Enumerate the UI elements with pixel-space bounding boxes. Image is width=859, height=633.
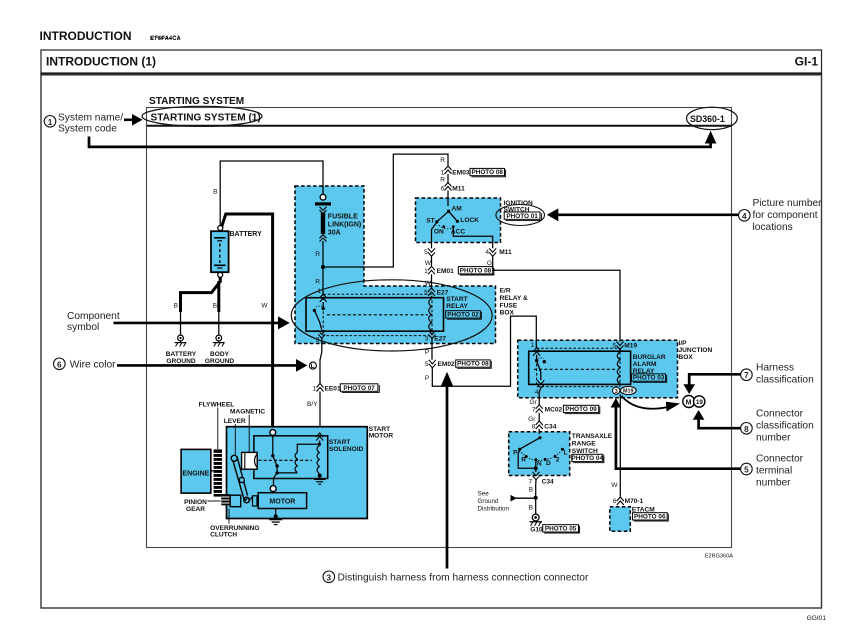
svg-text:BURGLAR: BURGLAR <box>633 354 666 361</box>
solenoid pull-in coil <box>317 441 321 474</box>
svg-text:PHOTO 02: PHOTO 02 <box>447 312 479 319</box>
svg-text:E/R: E/R <box>500 288 511 295</box>
photo box PHOTO 08 (EM02) <box>456 360 492 368</box>
svg-text:Ground: Ground <box>478 498 500 505</box>
label IGNITION SWITCH <box>504 200 534 214</box>
connector B/Y entry chevron <box>316 433 323 441</box>
connector C34 pin 8 <box>528 413 557 434</box>
svg-text:GGI01: GGI01 <box>807 615 827 622</box>
svg-text:LEVER: LEVER <box>224 418 246 425</box>
svg-text:EM03: EM03 <box>452 169 470 176</box>
solenoid ground <box>314 474 325 485</box>
motor MOTOR <box>258 493 306 509</box>
callout component symbol <box>67 311 290 333</box>
svg-text:number: number <box>756 477 791 488</box>
label FLYWHEEL with leader <box>199 402 235 450</box>
connector MC02 pin 7 / wire Gr <box>529 388 562 413</box>
svg-text:GROUND: GROUND <box>166 358 196 365</box>
start relay switch contacts <box>313 306 325 330</box>
callout 3 distinguish harness <box>323 372 589 584</box>
label TRANSAXLE RANGE SWITCH <box>572 433 613 455</box>
svg-text:M: M <box>686 399 692 406</box>
svg-text:5: 5 <box>744 466 749 475</box>
connector E27 pin 3 (relay coil bottom) <box>425 331 447 343</box>
svg-text:PHOTO 08: PHOTO 08 <box>460 267 492 274</box>
svg-text:symbol: symbol <box>67 322 99 333</box>
svg-text:PHOTO 04: PHOTO 04 <box>572 455 604 462</box>
svg-text:3: 3 <box>615 389 618 395</box>
callout 7 harness classification <box>683 363 813 394</box>
svg-text:7: 7 <box>532 406 536 413</box>
svg-text:PHOTO 08: PHOTO 08 <box>457 361 489 368</box>
svg-text:8: 8 <box>532 423 536 430</box>
svg-text:STARTING SYSTEM (1): STARTING SYSTEM (1) <box>151 113 261 124</box>
lever arm <box>231 455 249 503</box>
burglar alarm relay box (I/P junction box) <box>518 340 678 398</box>
svg-text:P: P <box>425 349 430 356</box>
svg-text:1: 1 <box>48 118 53 127</box>
svg-text:I/P: I/P <box>679 340 688 347</box>
label E/R RELAY & FUSE BOX <box>500 288 528 317</box>
svg-text:EF6FA4C3: EF6FA4C3 <box>151 36 180 42</box>
svg-text:GROUND: GROUND <box>205 358 235 365</box>
svg-text:1: 1 <box>531 342 535 349</box>
ignition switch box <box>416 198 501 243</box>
photo box PHOTO 07 <box>340 384 379 393</box>
svg-text:PHOTO 05: PHOTO 05 <box>545 526 577 533</box>
svg-text:FUSIBLE: FUSIBLE <box>328 214 358 221</box>
transaxle range switch contacts <box>513 436 567 472</box>
svg-text:E27: E27 <box>434 335 446 342</box>
motor terminal <box>270 486 276 492</box>
burglar alarm relay coil <box>617 350 620 386</box>
svg-text:locations: locations <box>753 222 793 233</box>
start relay body <box>306 294 444 335</box>
svg-text:CLUTCH: CLUTCH <box>210 532 237 539</box>
svg-text:3: 3 <box>327 573 332 582</box>
label OVERRUNNING CLUTCH with leader <box>210 509 259 539</box>
svg-text:M70-1: M70-1 <box>625 498 644 505</box>
curved arrow to M19 circles <box>622 396 681 412</box>
burglar alarm relay body <box>529 348 631 386</box>
svg-text:W: W <box>611 482 618 489</box>
svg-text:EE01: EE01 <box>325 385 341 392</box>
inner diagram frame <box>147 108 732 548</box>
photo box PHOTO 06 <box>633 513 669 521</box>
svg-text:EM02: EM02 <box>438 361 456 368</box>
label I/P JUNCTION BOX <box>679 340 713 361</box>
svg-text:INTRODUCTION: INTRODUCTION <box>40 29 132 43</box>
connector EM03 pin 1 <box>440 157 470 176</box>
burglar alarm relay switch contacts <box>535 356 546 380</box>
svg-text:SOLENOID: SOLENOID <box>329 446 364 453</box>
svg-text:MC02: MC02 <box>545 406 563 413</box>
svg-text:Component: Component <box>67 311 120 322</box>
svg-text:6: 6 <box>613 498 617 505</box>
start relay coil (E27 5-3) <box>429 296 432 332</box>
svg-text:7: 7 <box>529 478 533 485</box>
node R junction <box>321 265 325 269</box>
connector E27 pin 1 (relay switch top) <box>317 267 326 307</box>
magnetic plunger box <box>242 452 258 469</box>
svg-text:LINK(IGN): LINK(IGN) <box>328 222 361 229</box>
svg-text:JUNCTION: JUNCTION <box>679 347 713 354</box>
svg-text:Picture number: Picture number <box>753 198 823 209</box>
connector C34 pin 7 <box>529 472 555 486</box>
svg-text:RELAY &: RELAY & <box>500 295 528 302</box>
svg-text:TRANSAXLE: TRANSAXLE <box>572 433 613 440</box>
svg-text:6: 6 <box>57 360 62 369</box>
svg-text:SWITCH: SWITCH <box>572 448 598 455</box>
svg-text:System code: System code <box>58 123 117 134</box>
connector M11 pin 6 <box>440 174 465 192</box>
svg-text:30A: 30A <box>328 230 341 237</box>
svg-text:GEAR: GEAR <box>186 506 205 513</box>
svg-text:PHOTO 06: PHOTO 06 <box>634 514 666 521</box>
photo box PHOTO 05 <box>543 525 580 533</box>
connector EE01 pin 1 / wire B/Y <box>307 338 341 433</box>
svg-text:W: W <box>425 260 432 267</box>
svg-text:terminal: terminal <box>756 465 792 476</box>
ETACM box <box>610 507 631 532</box>
svg-text:INTRODUCTION (1): INTRODUCTION (1) <box>46 55 156 69</box>
ellipse around title <box>142 106 262 126</box>
node circled 3 (connector terminal number) <box>613 387 620 395</box>
svg-text:RELAY: RELAY <box>446 303 468 310</box>
svg-text:P: P <box>425 375 430 382</box>
connector M70-1 pin 6 <box>613 497 644 505</box>
svg-text:19: 19 <box>696 399 704 406</box>
svg-text:G: G <box>487 260 492 267</box>
wire G from ignition to burglar relay coil <box>493 256 620 341</box>
photo box PHOTO 09 <box>563 405 599 413</box>
svg-text:AM: AM <box>452 206 463 213</box>
wire B thick battery negative fork <box>174 277 221 334</box>
svg-text:R: R <box>521 457 526 464</box>
motor ground <box>269 509 282 525</box>
svg-text:R: R <box>440 177 445 184</box>
connector M19 pin 4 (burglar relay switch bottom) <box>535 380 544 396</box>
svg-text:Harness: Harness <box>756 363 794 374</box>
svg-text:7: 7 <box>744 371 749 380</box>
svg-text:classification: classification <box>756 421 814 432</box>
svg-text:R: R <box>440 157 445 164</box>
overrunning clutch assembly <box>230 495 257 507</box>
svg-text:ST: ST <box>426 217 434 224</box>
svg-text:1: 1 <box>424 268 428 275</box>
svg-text:System name/: System name/ <box>58 112 123 123</box>
callout 6 wire color <box>54 358 308 372</box>
svg-text:PINION: PINION <box>184 499 207 506</box>
svg-text:5: 5 <box>424 249 428 256</box>
callout 8 connector classification number <box>693 409 814 444</box>
ground G10 <box>530 514 543 533</box>
photo box PHOTO 03 <box>632 374 667 382</box>
see ground distribution pointer <box>478 490 536 512</box>
svg-text:B: B <box>529 487 534 494</box>
svg-text:ON: ON <box>434 228 444 235</box>
svg-text:PHOTO 08: PHOTO 08 <box>471 169 503 176</box>
connector E27 pin 2 (relay switch bottom) <box>316 330 325 343</box>
svg-text:PHOTO 07: PHOTO 07 <box>343 385 375 392</box>
svg-text:M19: M19 <box>623 389 634 395</box>
svg-text:W: W <box>261 303 268 310</box>
connector EM02 pin 5 / wire P <box>425 339 455 369</box>
svg-text:R: R <box>315 279 320 286</box>
callout 1 System name/System code <box>44 112 142 134</box>
svg-text:B/Y: B/Y <box>307 401 318 408</box>
E/R relay & fuse box with fusible link area (cyan dashed polygon) <box>295 186 496 344</box>
svg-text:MOTOR: MOTOR <box>369 433 394 440</box>
node M19 oval (connector classification) <box>620 387 636 395</box>
label PINION GEAR with leader <box>184 499 220 513</box>
node SD360-1 <box>687 107 738 129</box>
label MAGNETIC with leader <box>230 409 265 453</box>
fusible link FUSIBLE LINK(IGN) 30A <box>315 194 361 265</box>
svg-text:4: 4 <box>535 389 539 396</box>
label START RELAY <box>446 296 468 310</box>
svg-text:2: 2 <box>556 457 560 464</box>
svg-text:C34: C34 <box>542 478 554 485</box>
svg-text:M19: M19 <box>624 342 637 349</box>
svg-text:for component: for component <box>753 210 818 221</box>
svg-text:BATTERY: BATTERY <box>230 231 263 238</box>
connector M19 pin 1 (burglar relay switch top) <box>531 342 540 355</box>
svg-text:PHOTO 01: PHOTO 01 <box>506 213 538 220</box>
wire B battery top <box>213 161 323 226</box>
svg-text:GI-1: GI-1 <box>795 55 819 69</box>
svg-text:BATTERY: BATTERY <box>166 351 197 358</box>
svg-text:M11: M11 <box>499 249 512 256</box>
solenoid housing <box>254 436 328 479</box>
svg-text:PHOTO 03: PHOTO 03 <box>633 375 665 382</box>
svg-text:B: B <box>529 505 534 512</box>
svg-text:G10: G10 <box>530 526 543 533</box>
svg-text:1: 1 <box>312 385 316 392</box>
svg-text:R: R <box>315 251 320 258</box>
transaxle range switch box <box>509 432 570 476</box>
svg-text:Gr: Gr <box>529 399 537 406</box>
svg-text:4: 4 <box>742 212 747 221</box>
svg-text:P: P <box>513 449 518 456</box>
wire P to burglar alarm relay <box>425 316 536 386</box>
engine ENGINE <box>181 449 214 493</box>
svg-text:PHOTO 09: PHOTO 09 <box>565 406 597 413</box>
svg-text:EM01: EM01 <box>437 268 455 275</box>
callout 1 elbow line to SD360-1 <box>89 131 716 147</box>
svg-text:number: number <box>756 433 791 444</box>
solenoid hold-in coil <box>295 444 319 472</box>
label BURGLAR ALARM RELAY <box>633 354 666 375</box>
svg-text:Connector: Connector <box>756 409 804 420</box>
svg-text:MOTOR: MOTOR <box>269 499 295 506</box>
svg-text:BODY: BODY <box>210 351 230 358</box>
callout 5 connector terminal number <box>611 398 804 488</box>
svg-text:LOCK: LOCK <box>460 217 479 224</box>
connector M11 pin 5 / wire W <box>424 248 435 266</box>
photo box PHOTO 04 <box>572 454 604 462</box>
white terminal W input <box>270 430 276 436</box>
svg-text:5: 5 <box>424 289 428 296</box>
page heading INTRODUCTION <box>40 29 182 43</box>
ellipse component symbol callout <box>291 280 492 351</box>
wire B to ground G10 <box>529 480 538 514</box>
svg-text:SD360-1: SD360-1 <box>690 114 725 124</box>
node M19 harness circles <box>683 396 705 408</box>
start motor box <box>227 427 368 519</box>
svg-text:1: 1 <box>441 169 445 176</box>
svg-text:FUSE: FUSE <box>500 302 518 309</box>
header bar <box>40 50 822 74</box>
connector M19 pin 5 (burglar relay coil top) <box>613 342 638 350</box>
svg-text:Distribution: Distribution <box>478 505 510 512</box>
svg-text:STARTING SYSTEM: STARTING SYSTEM <box>149 96 244 107</box>
svg-text:B: B <box>213 189 218 196</box>
svg-text:C34: C34 <box>544 423 556 430</box>
wire W thick battery cable to start motor <box>222 214 273 430</box>
svg-text:M11: M11 <box>452 185 465 192</box>
photo box PHOTO 08 (EM01) <box>458 267 494 275</box>
outer page frame <box>41 75 822 609</box>
flywheel toothed strip <box>214 449 222 496</box>
svg-text:N: N <box>537 461 542 468</box>
label START MOTOR <box>369 426 394 440</box>
label START SOLENOID <box>329 439 364 453</box>
svg-text:MAGNETIC: MAGNETIC <box>230 409 265 416</box>
svg-text:D: D <box>546 460 551 467</box>
callout 4 picture number <box>547 198 822 233</box>
svg-text:8: 8 <box>744 425 749 434</box>
svg-text:5: 5 <box>613 342 617 349</box>
svg-text:6: 6 <box>441 185 445 192</box>
svg-text:Wire color: Wire color <box>70 359 116 370</box>
svg-text:classification: classification <box>756 375 814 386</box>
wire W to ETACM <box>611 394 620 496</box>
wire W to E27 pin 5 <box>424 274 449 296</box>
svg-text:B: B <box>174 303 179 310</box>
svg-text:ENGINE: ENGINE <box>183 470 210 477</box>
svg-text:ALARM: ALARM <box>633 361 657 368</box>
connector M11 pin 4 / wire G <box>485 248 512 267</box>
label LEVER with leader <box>224 418 246 457</box>
svg-text:FLYWHEEL: FLYWHEEL <box>199 402 235 409</box>
solenoid mechanical dashed link <box>259 459 313 461</box>
svg-text:W: W <box>425 280 432 287</box>
pinion gear <box>221 494 230 505</box>
svg-text:Connector: Connector <box>756 453 804 464</box>
connector EM01 pin 1 <box>424 266 454 275</box>
svg-text:4: 4 <box>485 249 489 256</box>
ellipse ignition callout <box>496 205 545 226</box>
svg-text:Distinguish harness from harne: Distinguish harness from harness connect… <box>338 572 589 583</box>
svg-text:BOX: BOX <box>679 354 694 361</box>
svg-text:See: See <box>478 490 490 497</box>
svg-text:RANGE: RANGE <box>572 440 596 447</box>
svg-text:Gr: Gr <box>528 416 536 423</box>
photo box PHOTO 01 <box>504 212 541 220</box>
photo box PHOTO 08 (EM03) <box>470 168 506 176</box>
svg-text:3: 3 <box>425 335 429 342</box>
svg-text:5: 5 <box>425 361 429 368</box>
battery BATTERY <box>211 226 262 278</box>
svg-text:B: B <box>213 303 218 310</box>
svg-text:E2RG360A: E2RG360A <box>705 554 734 560</box>
photo box PHOTO 02 <box>446 311 482 320</box>
svg-text:L: L <box>564 450 568 457</box>
node wire color symbol <box>309 362 316 369</box>
wire R to ignition via EM03 <box>315 154 448 285</box>
ignition switch symbol <box>426 191 492 249</box>
solenoid contact and wiring <box>271 435 297 485</box>
body ground <box>205 335 235 365</box>
battery ground <box>166 335 197 365</box>
